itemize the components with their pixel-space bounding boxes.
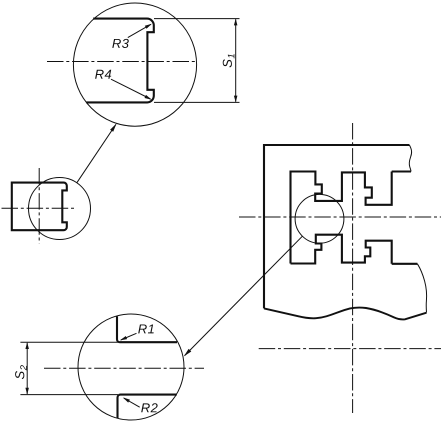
small part vertical centerline [38, 168, 40, 244]
leader arrow R2 [124, 398, 140, 407]
right part break line bottom (wavy) [264, 308, 427, 320]
small part horizontal centerline [2, 207, 76, 209]
leader arrow R1 [121, 333, 137, 340]
detail view B centerline [44, 367, 204, 369]
right part bottom right edge [392, 263, 418, 265]
label S2 [15, 365, 27, 379]
leader from small part to detail view A [77, 124, 116, 182]
label R3 [112, 39, 129, 48]
right part break line bottom-right (wavy) [417, 264, 426, 313]
detail view B upper wall and floor (R1 corner) [117, 316, 177, 342]
leader arrow R3 [128, 24, 151, 37]
extension lines S2 [20, 342, 118, 394]
right part inner ceiling right edge [392, 170, 411, 172]
right part break line top-right (wavy) [409, 145, 411, 172]
detail view A groove profile (magnified) [86, 19, 154, 103]
dimension line S2 [26, 343, 28, 394]
detail view A circle [73, 3, 196, 126]
extension lines S1 [154, 19, 240, 103]
right part outer outline [264, 145, 409, 308]
label S1 [223, 54, 235, 67]
auxiliary axis centerline below right part [259, 348, 441, 350]
detail view A centerline [47, 61, 196, 63]
leader arrow R4 [111, 79, 151, 99]
right part inner profile upper half [291, 172, 392, 264]
detail view B lower wall and ceiling (R2 corner) [118, 395, 177, 419]
label R4 [95, 70, 111, 79]
detail indicator circle on small part [29, 178, 91, 240]
dimension line S1 [235, 19, 237, 102]
right part inner profile lower half [291, 235, 392, 264]
small part outline [12, 183, 67, 231]
right part vertical centerline [352, 123, 354, 413]
detail view B circle [78, 314, 184, 420]
leader from right part to detail view B [185, 236, 303, 355]
right part horizontal centerline [239, 216, 441, 218]
detail indicator circle on right part [295, 194, 344, 243]
label R1 [138, 324, 154, 333]
label R2 [141, 403, 157, 412]
